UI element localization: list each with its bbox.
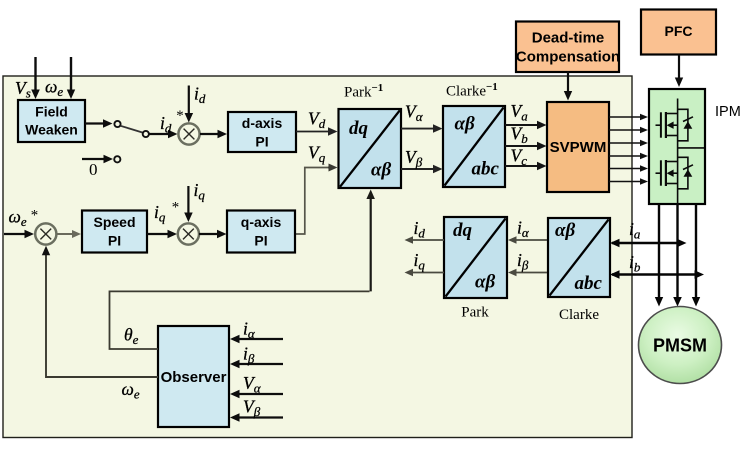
svg-text:PFC: PFC	[665, 23, 693, 39]
svg-text:Field: Field	[35, 104, 68, 120]
svg-text:αβ: αβ	[475, 272, 496, 293]
svg-text:*: *	[30, 208, 38, 224]
svg-text:Dead-time: Dead-time	[532, 30, 605, 47]
svg-text:0: 0	[89, 160, 98, 179]
svg-text:SVPWM: SVPWM	[550, 139, 607, 156]
svg-text:Weaken: Weaken	[25, 122, 78, 138]
svg-text:PMSM: PMSM	[653, 336, 707, 356]
svg-text:*: *	[176, 108, 184, 124]
svg-text:PI: PI	[255, 134, 268, 150]
svg-text:ia: ia	[629, 219, 641, 242]
svg-text:PI: PI	[108, 233, 121, 249]
svg-text:αβ: αβ	[371, 160, 392, 181]
svg-text:dq: dq	[349, 118, 369, 139]
svg-text:Park: Park	[461, 305, 489, 321]
svg-text:Speed: Speed	[93, 214, 135, 230]
svg-text:αβ: αβ	[555, 220, 576, 241]
svg-text:Observer: Observer	[161, 369, 227, 386]
svg-text:abc: abc	[472, 159, 500, 180]
svg-text:ib: ib	[629, 252, 641, 275]
svg-text:q-axis: q-axis	[241, 214, 282, 230]
svg-text:d-axis: d-axis	[242, 115, 283, 131]
svg-text:Compensation: Compensation	[516, 49, 620, 66]
svg-text:*: *	[171, 200, 179, 216]
svg-text:dq: dq	[453, 220, 473, 241]
svg-text:abc: abc	[575, 273, 603, 294]
svg-text:IPM: IPM	[715, 104, 741, 120]
svg-text:αβ: αβ	[455, 114, 476, 135]
svg-text:PI: PI	[254, 233, 267, 249]
svg-text:Clarke: Clarke	[559, 307, 599, 323]
